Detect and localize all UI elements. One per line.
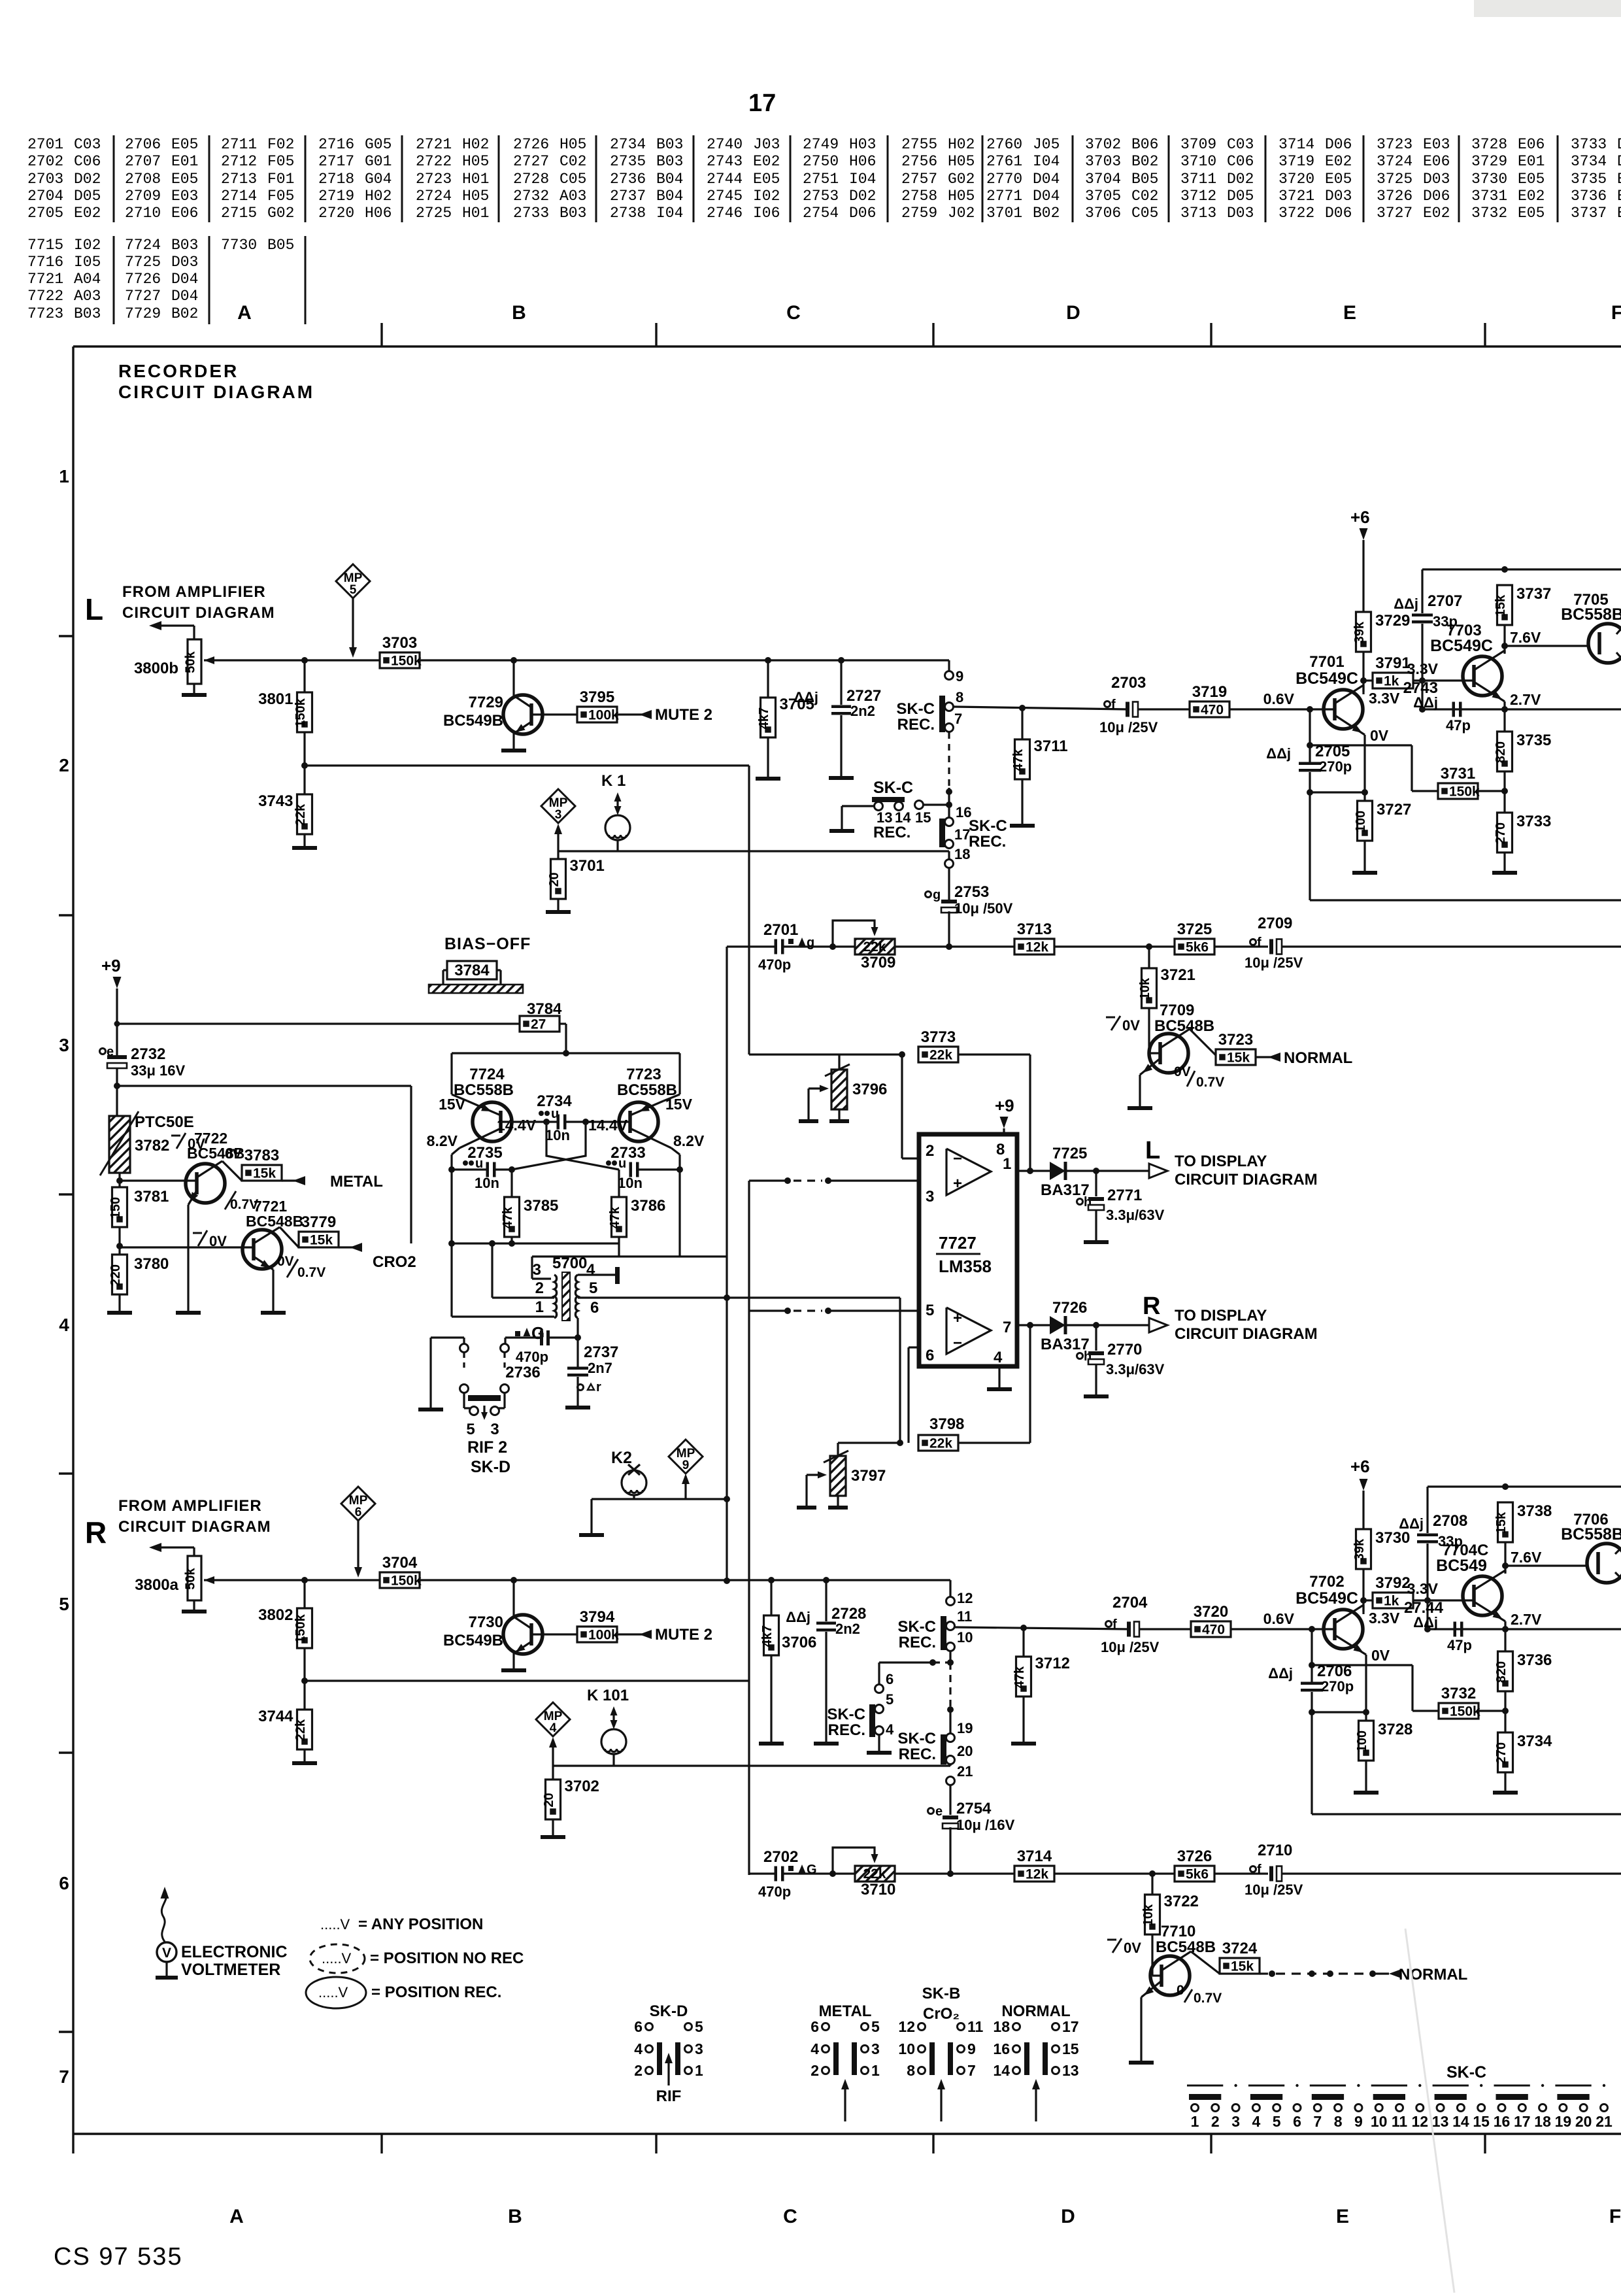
svg-text:E05: E05 [753, 171, 780, 188]
svg-text:L: L [85, 592, 103, 626]
svg-text:3: 3 [1231, 2113, 1240, 2130]
svg-text:3723: 3723 [1377, 136, 1412, 153]
switch SK-C pin 19 [946, 1734, 955, 1742]
svg-text:16: 16 [993, 2040, 1010, 2057]
svg-text:2710: 2710 [125, 205, 161, 222]
svg-text:H02: H02 [462, 136, 489, 153]
svg-text:3732: 3732 [1471, 205, 1507, 222]
svg-text:I05: I05 [74, 254, 101, 271]
svg-text:20: 20 [957, 1743, 973, 1759]
svg-text:3727: 3727 [1377, 801, 1411, 819]
wire metal arrow [282, 1179, 305, 1181]
svg-text:2735: 2735 [467, 1144, 502, 1162]
svg-text:10μ /25V: 10μ /25V [1099, 719, 1158, 735]
svg-text:3779: 3779 [301, 1213, 336, 1231]
svg-text:3720: 3720 [1278, 171, 1314, 188]
svg-text:A: A [229, 2206, 244, 2227]
svg-text:3737: 3737 [1571, 205, 1607, 222]
svg-text:12k: 12k [1026, 940, 1048, 955]
svg-text:20: 20 [1575, 2113, 1592, 2130]
ground 3712 [1022, 1697, 1024, 1742]
svg-text:2: 2 [535, 1279, 544, 1297]
svg-text:100: 100 [1355, 1730, 1369, 1752]
svg-text:1: 1 [1003, 1155, 1011, 1173]
resistor 3705 4k7 [767, 660, 769, 698]
wire 7701 emitter [1335, 715, 1365, 735]
resistor 3773 22k [918, 1047, 958, 1062]
wire 0V row L [1310, 744, 1412, 746]
svg-text:B04: B04 [656, 171, 683, 188]
svg-text:11: 11 [957, 1608, 972, 1625]
wire 2710 to edge [1282, 1872, 1621, 1874]
svg-text:2717: 2717 [318, 153, 354, 170]
svg-text:7726: 7726 [125, 271, 161, 288]
svg-text:7701: 7701 [1309, 653, 1344, 671]
wire V2004 lower [1309, 772, 1311, 900]
svg-text:5k6: 5k6 [1186, 940, 1209, 955]
wire 3784 to osc rail [560, 1022, 566, 1024]
svg-text:H01: H01 [462, 171, 489, 188]
wire 3791 to 7703 base [1413, 679, 1474, 681]
switch SK-C pin 17 [945, 840, 954, 849]
wire K2 row [592, 1498, 727, 1500]
wire 3709 to 3713 [895, 945, 1014, 947]
svg-text:E02: E02 [1325, 153, 1352, 170]
svg-text:12: 12 [957, 1590, 973, 1606]
wire 39k to base node [1362, 652, 1364, 694]
svg-text:= POSITION NO REC: = POSITION NO REC [370, 1950, 524, 1967]
wire 7723 emitter [630, 1101, 663, 1115]
ground 7729 [501, 749, 526, 752]
svg-text:BC558B: BC558B [1561, 605, 1621, 624]
wire 7701 emitter down [1363, 739, 1365, 792]
capacitor 2728 2n2 [823, 1577, 829, 1583]
svg-text:2732: 2732 [513, 188, 549, 205]
svg-text:10: 10 [1371, 2113, 1388, 2130]
svg-text:2n2: 2n2 [850, 703, 875, 719]
ground 3702 [552, 1819, 554, 1835]
svg-text:150k: 150k [1449, 785, 1480, 800]
wire 13 to ground [842, 805, 875, 807]
svg-text:10μ /50V: 10μ /50V [954, 900, 1013, 917]
svg-text:2743: 2743 [707, 153, 743, 170]
svg-text:D03: D03 [1227, 205, 1254, 222]
svg-text:3719: 3719 [1192, 683, 1227, 701]
wire pin6 link [909, 1346, 919, 1348]
svg-text:E03: E03 [171, 188, 198, 205]
svg-text:2705: 2705 [27, 205, 63, 222]
label 0.7V 7722 [225, 1191, 236, 1209]
svg-text:K 1: K 1 [601, 772, 626, 790]
svg-text:CIRCUIT DIAGRAM: CIRCUIT DIAGRAM [1175, 1325, 1318, 1343]
svg-text:3701: 3701 [570, 857, 605, 875]
svg-text:C02: C02 [560, 153, 586, 170]
wire L feedback row [305, 764, 749, 766]
svg-text:CIRCUIT DIAGRAM: CIRCUIT DIAGRAM [118, 382, 314, 402]
svg-text:3: 3 [59, 1035, 69, 1055]
switch SK-C pin 4 [875, 1727, 884, 1735]
svg-text:G02: G02 [267, 205, 294, 222]
transistor 7729 BC549B [503, 695, 543, 734]
svg-text:3721: 3721 [1161, 966, 1195, 984]
switch SK-C pin 11 [946, 1622, 955, 1630]
svg-text:H01: H01 [462, 205, 489, 222]
svg-text:2718: 2718 [318, 171, 354, 188]
svg-text:D03: D03 [171, 254, 198, 271]
marker 0V 7710 [1107, 1939, 1116, 1941]
svg-text:5: 5 [1273, 2113, 1281, 2130]
svg-text:3800b: 3800b [134, 660, 178, 677]
wire 7721 base [120, 1246, 254, 1248]
svg-text:BC549: BC549 [1436, 1557, 1487, 1575]
svg-text:2755: 2755 [901, 136, 937, 153]
svg-text:E06: E06 [1518, 136, 1545, 153]
svg-text:0.7V: 0.7V [1194, 1991, 1222, 2006]
wire 7705 base row [1505, 645, 1588, 647]
resistor 3802 [303, 1580, 305, 1608]
svg-text:39k: 39k [1352, 1538, 1367, 1561]
svg-text:B03: B03 [74, 305, 101, 322]
svg-text:5: 5 [589, 1279, 597, 1297]
svg-text:NORMAL: NORMAL [1399, 1966, 1467, 1984]
svg-text:CRO2: CRO2 [373, 1253, 416, 1271]
resistor 3723 15k [1216, 1049, 1256, 1065]
svg-text:FROM AMPLIFIER: FROM AMPLIFIER [122, 583, 266, 601]
svg-text:BC549B: BC549B [443, 1632, 503, 1649]
svg-text:SK-D: SK-D [650, 2002, 688, 2020]
svg-text:F05: F05 [267, 153, 294, 170]
wire 3773 out [958, 1053, 1030, 1055]
wire dashed pin7-16 [948, 732, 950, 788]
wire pin4 ground [998, 1366, 1000, 1387]
switch SK-C REC contact 8-7 [939, 696, 945, 732]
svg-text:4: 4 [59, 1315, 69, 1335]
opamp A triangle [946, 1149, 991, 1195]
svg-text:2771: 2771 [1107, 1187, 1142, 1204]
svg-text:2709: 2709 [1258, 915, 1292, 932]
svg-text:VOLTMETER: VOLTMETER [181, 1961, 280, 1979]
ground 2771 [1095, 1209, 1097, 1240]
wire K101 row [553, 1764, 950, 1766]
svg-text:B05: B05 [267, 237, 294, 254]
svg-text:17: 17 [1514, 2113, 1531, 2130]
switch SK-C pin 10 [946, 1643, 955, 1651]
ground 3744 [303, 1749, 305, 1761]
ground 3711 [1021, 779, 1023, 824]
wire V1112 vertical [726, 947, 727, 1581]
svg-text:22k: 22k [863, 939, 886, 954]
svg-text:ΔΔj: ΔΔj [1413, 1614, 1438, 1630]
svg-text:3719: 3719 [1278, 153, 1314, 170]
svg-text:D02: D02 [74, 171, 101, 188]
svg-text:2n7: 2n7 [588, 1360, 612, 1376]
svg-text:7724: 7724 [125, 237, 161, 254]
wire pin3 input [749, 1179, 790, 1181]
wire 3721 to 7709 base [1148, 1008, 1150, 1053]
svg-text:2722: 2722 [416, 153, 452, 170]
svg-text:A: A [237, 302, 252, 324]
svg-text:3730: 3730 [1471, 171, 1507, 188]
wire V2004 upper [1309, 709, 1311, 762]
capacitor 2754 10u/16V [928, 1808, 934, 1814]
svg-text:C03: C03 [1227, 136, 1254, 153]
svg-text:3728: 3728 [1471, 136, 1507, 153]
svg-text:D04: D04 [1033, 171, 1060, 188]
svg-text:3743: 3743 [258, 792, 293, 810]
svg-text:3.3μ/63V: 3.3μ/63V [1106, 1361, 1165, 1377]
svg-text:2751: 2751 [803, 171, 839, 188]
svg-text:6: 6 [355, 1506, 362, 1519]
svg-text:13: 13 [1432, 2113, 1449, 2130]
svg-text:3798: 3798 [929, 1415, 964, 1433]
wire row2866 left [749, 1872, 775, 1874]
svg-text:I06: I06 [753, 205, 780, 222]
svg-text:2737: 2737 [584, 1343, 618, 1361]
svg-text:2.7V: 2.7V [1510, 691, 1541, 708]
svg-text:G: G [807, 1863, 817, 1877]
svg-text:u: u [618, 1156, 626, 1171]
svg-text:4: 4 [634, 2040, 643, 2057]
svg-text:2713: 2713 [221, 171, 257, 188]
marker 0V 7709 [1106, 1017, 1115, 1019]
svg-text:2728: 2728 [831, 1605, 866, 1623]
svg-text:2740: 2740 [707, 136, 743, 153]
svg-text:3782: 3782 [135, 1137, 169, 1155]
switch SK-C pin 16 [945, 818, 954, 826]
svg-text:270p: 270p [1321, 1678, 1354, 1695]
ground 2770 [1095, 1364, 1097, 1394]
svg-text:150k: 150k [391, 1574, 422, 1589]
svg-text:E02: E02 [1423, 205, 1450, 222]
transistor 7706 BC558B [1587, 1544, 1621, 1583]
svg-text:4: 4 [586, 1261, 595, 1279]
svg-text:2707: 2707 [125, 153, 161, 170]
svg-text:3780: 3780 [134, 1255, 169, 1273]
wire 3726 to 2710 [1214, 1872, 1268, 1874]
resistor 3783 15k [242, 1165, 282, 1181]
svg-text:D03: D03 [1423, 171, 1450, 188]
wire 3731 left [1412, 790, 1438, 792]
svg-text:2704: 2704 [27, 188, 63, 205]
wire opamp out1 [1017, 1170, 1050, 1172]
svg-text:3737: 3737 [1516, 585, 1551, 603]
svg-text:J05: J05 [1033, 136, 1060, 153]
opamp B triangle [946, 1308, 991, 1354]
ground 3705 [767, 737, 769, 777]
wire 3797 top [837, 1443, 839, 1456]
svg-text:D03: D03 [1325, 188, 1352, 205]
resistor 3722 10k [1151, 1874, 1153, 1895]
wire 3728 row [1312, 1711, 1366, 1713]
trimmer 3710 22k [855, 1866, 895, 1882]
resistor 3702 [552, 1766, 554, 1780]
svg-text:F: F [1611, 302, 1621, 324]
wire 7710 emitter [1141, 1981, 1161, 1997]
svg-text:10μ /25V: 10μ /25V [1245, 954, 1303, 971]
svg-text:C05: C05 [1131, 205, 1158, 222]
svg-text:150k: 150k [293, 1613, 308, 1643]
frame grid ticks [380, 323, 382, 346]
svg-text:220: 220 [109, 1264, 123, 1286]
ground 3796 [838, 1109, 840, 1119]
legend position no rec [310, 1944, 365, 1973]
svg-text:7724: 7724 [469, 1066, 505, 1083]
svg-text:NORMAL: NORMAL [1284, 1049, 1352, 1067]
wire 3802-3744 [303, 1648, 305, 1710]
wire osc left vertical [450, 1155, 452, 1317]
wire 7710 collector [1161, 1951, 1191, 1970]
svg-text:B03: B03 [171, 237, 198, 254]
svg-text:BA317: BA317 [1041, 1336, 1090, 1353]
wire 7730 emitter [514, 1642, 531, 1653]
svg-text:G01: G01 [365, 153, 392, 170]
svg-text:3735: 3735 [1516, 732, 1551, 749]
svg-text:47p: 47p [1446, 717, 1471, 734]
svg-text:2726: 2726 [513, 136, 549, 153]
ground 7722 [176, 1311, 201, 1315]
svg-text:2708: 2708 [1433, 1512, 1467, 1530]
svg-text:17: 17 [954, 826, 970, 843]
svg-text:7.6V: 7.6V [1511, 1549, 1542, 1566]
wire 3785 bottom [510, 1237, 512, 1243]
svg-text:E03: E03 [1423, 136, 1450, 153]
svg-text:150k: 150k [293, 698, 308, 727]
svg-text:3728: 3728 [1378, 1721, 1412, 1738]
svg-text:3801: 3801 [258, 690, 293, 708]
resistor 3706 4k7 [770, 1580, 772, 1615]
svg-text:13: 13 [1062, 2062, 1079, 2079]
wire 7729 collector [514, 696, 531, 707]
transistor 7701 BC549C [1324, 690, 1363, 729]
svg-text:33μ 16V: 33μ 16V [131, 1062, 186, 1079]
opamp 7727 LM358 body [919, 1134, 1017, 1366]
svg-text:14.4V: 14.4V [497, 1117, 537, 1134]
node Rdash dot1 [947, 1659, 954, 1666]
svg-text:1: 1 [1191, 2113, 1199, 2130]
svg-text:3702: 3702 [1085, 136, 1121, 153]
wire 3786 bottom [618, 1237, 620, 1257]
svg-text:470p: 470p [516, 1349, 548, 1365]
ground 3728 [1365, 1761, 1367, 1791]
svg-text:3701: 3701 [986, 205, 1022, 222]
svg-text:2734: 2734 [610, 136, 646, 153]
svg-text:REC.: REC. [828, 1721, 865, 1739]
svg-text:ELECTRONIC: ELECTRONIC [181, 1943, 288, 1961]
transistor 7710 BC548B [1150, 1956, 1190, 1995]
wire 3722 to 7710 base [1151, 1934, 1153, 1976]
wire Rdash horiz [933, 1661, 950, 1663]
wire 3719 to 7701 base [1229, 708, 1335, 710]
svg-text:22k: 22k [929, 1048, 952, 1063]
wire 3798 out [958, 1442, 1030, 1443]
node V2004 top [1307, 706, 1313, 713]
svg-text:+9: +9 [101, 956, 121, 975]
svg-text:f: f [1257, 936, 1262, 950]
wire 7729 base to 3795 [531, 713, 577, 715]
svg-text:7730: 7730 [469, 1613, 503, 1631]
wire 3725 to 2709 [1214, 945, 1268, 947]
svg-text:3724: 3724 [1222, 1940, 1258, 1957]
svg-text:R: R [1143, 1292, 1160, 1320]
switch SK-C pin 12 [946, 1597, 955, 1606]
svg-text:2: 2 [1211, 2113, 1220, 2130]
svg-text:ΔΔj: ΔΔj [786, 1609, 811, 1625]
svg-text:REC.: REC. [873, 824, 911, 841]
resistor 3725 5k6 [1175, 939, 1214, 954]
svg-text:D06: D06 [849, 205, 876, 222]
svg-text:2703: 2703 [27, 171, 63, 188]
wire trafo pin6 down [577, 1318, 578, 1368]
svg-text:B05: B05 [1131, 171, 1158, 188]
svg-text:B03: B03 [656, 153, 683, 170]
ground 3706 [770, 1655, 772, 1742]
svg-text:3726: 3726 [1177, 1848, 1212, 1865]
svg-text:= POSITION REC.: = POSITION REC. [371, 1984, 501, 2001]
test point MP5 [336, 564, 370, 598]
svg-text:g: g [807, 936, 814, 950]
svg-text:BC549B: BC549B [443, 712, 503, 730]
wire 7724 collector [460, 1128, 501, 1148]
svg-text:22k: 22k [293, 803, 308, 826]
svg-text:2701: 2701 [763, 921, 798, 939]
wire 2736 right [550, 1336, 578, 1338]
wire opamp out2 [1017, 1324, 1050, 1326]
svg-text:E: E [1336, 2206, 1349, 2227]
svg-text:17: 17 [748, 90, 776, 117]
svg-text:6: 6 [811, 2018, 819, 2035]
resistor 3704 [380, 1572, 420, 1588]
resistor 3791 1k [1373, 673, 1413, 688]
svg-text:12: 12 [898, 2018, 915, 2035]
svg-text:7709: 7709 [1160, 1002, 1194, 1019]
svg-text:2735: 2735 [610, 153, 646, 170]
resistor 3736 820 [1504, 1629, 1506, 1651]
svg-text:D04: D04 [1033, 188, 1060, 205]
wire 3731 right [1478, 790, 1505, 792]
svg-text:BIAS−OFF: BIAS−OFF [444, 935, 531, 953]
resistor 3724 15k [1220, 1958, 1260, 1974]
svg-text:22k: 22k [863, 1866, 886, 1882]
wire row1448 left [727, 945, 775, 947]
wire 3709 wiper arrow [833, 920, 875, 947]
svg-text:3797: 3797 [851, 1467, 886, 1485]
svg-text:3713: 3713 [1180, 205, 1216, 222]
wire +9 row [117, 1022, 520, 1024]
svg-text:f: f [1112, 1617, 1117, 1632]
resistor 3801 [303, 660, 305, 692]
svg-text:2710: 2710 [1258, 1842, 1292, 1859]
wire 7724 emitter [467, 1101, 501, 1115]
wire 7723 collector [630, 1128, 671, 1148]
svg-text:I02: I02 [753, 188, 780, 205]
wire 7701 collector [1335, 685, 1363, 703]
svg-text:B: B [508, 2206, 522, 2227]
svg-text:3710: 3710 [1180, 153, 1216, 170]
switch SK-C pin 8 [945, 703, 954, 711]
switch SK-C aux contact 5-4 [869, 1704, 875, 1737]
svg-text:3.3V: 3.3V [1369, 1610, 1400, 1627]
test point MP6 [341, 1487, 375, 1521]
svg-text:7715: 7715 [27, 237, 63, 254]
svg-text:E01: E01 [171, 153, 198, 170]
node dash dot1 [946, 788, 952, 795]
svg-text:3712: 3712 [1035, 1655, 1070, 1672]
resistor 3714 12k [1014, 1866, 1054, 1882]
wire pin5 input [749, 1309, 790, 1311]
svg-text:CS 97 535: CS 97 535 [54, 2243, 183, 2271]
wire 7704 emitter [1474, 1602, 1505, 1621]
svg-text:8.2V: 8.2V [427, 1132, 458, 1149]
